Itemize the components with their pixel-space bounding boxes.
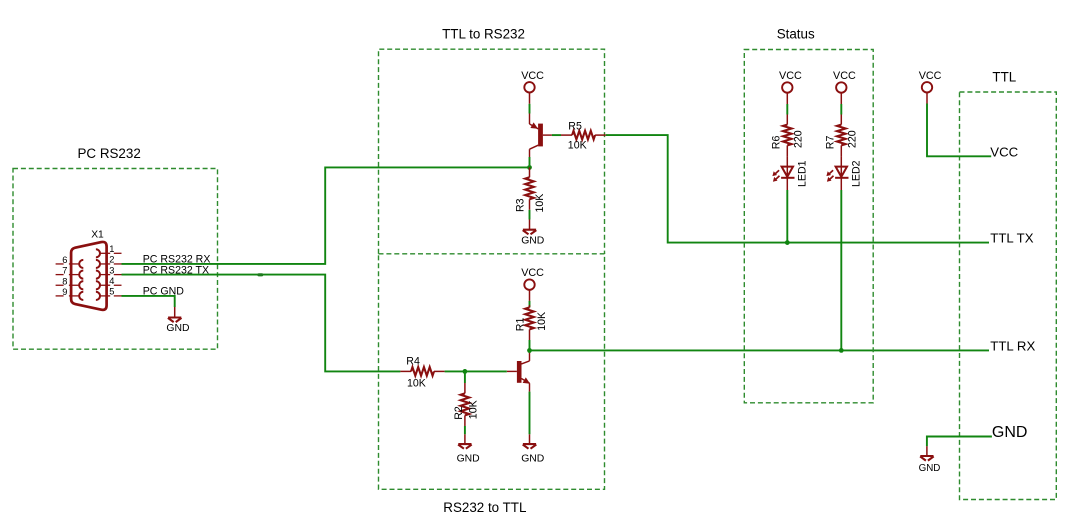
resistor R7	[840, 115, 842, 125]
svg-text:GND: GND	[521, 453, 544, 464]
svg-text:VCC: VCC	[990, 145, 1018, 160]
resistor R5	[561, 134, 572, 136]
wire node to Q2 collector	[529, 350, 531, 353]
svg-text:GND: GND	[457, 453, 480, 464]
svg-text:TTL TX: TTL TX	[990, 231, 1033, 246]
svg-text:VCC: VCC	[919, 70, 942, 82]
svg-text:GND: GND	[521, 235, 544, 246]
net TTL TX wire	[606, 135, 989, 243]
svg-text:10K: 10K	[468, 400, 480, 419]
pin 2 lead	[100, 263, 110, 265]
wire VCC to R6	[786, 104, 788, 115]
transistor Q2 (NPN)	[507, 353, 530, 392]
svg-text:VCC: VCC	[521, 267, 544, 279]
svg-text:7: 7	[62, 266, 67, 276]
svg-text:R7: R7	[824, 136, 836, 150]
wire R1 to node	[529, 340, 531, 350]
frame TTL	[960, 92, 1057, 500]
wire VCC to R7	[840, 104, 842, 115]
svg-text:PC RS232: PC RS232	[78, 146, 141, 161]
frame RS232 to TTL	[379, 254, 605, 489]
connector contact pin 9	[79, 292, 83, 300]
resistor R6	[786, 115, 788, 125]
svg-text:6: 6	[62, 255, 67, 265]
net GND wire	[927, 437, 992, 447]
svg-text:PC GND: PC GND	[143, 286, 185, 298]
pin lead from VCC	[529, 93, 531, 104]
svg-text:PC RS232 TX: PC RS232 TX	[143, 264, 209, 276]
svg-text:10K: 10K	[534, 194, 546, 213]
connector contact pin 7	[79, 271, 83, 279]
svg-text:RS232 to TTL: RS232 to TTL	[443, 500, 526, 515]
svg-text:R2: R2	[453, 406, 465, 420]
svg-text:LED2: LED2	[850, 160, 862, 187]
net PC GND wire	[122, 296, 175, 307]
node junction LED2	[839, 348, 844, 353]
svg-text:VCC: VCC	[779, 70, 802, 82]
svg-text:GND: GND	[919, 463, 941, 474]
ground symbol below X1	[168, 318, 182, 323]
svg-text:R3: R3	[514, 198, 526, 212]
LED LED1	[772, 156, 794, 190]
pin 4 lead	[100, 284, 110, 286]
svg-text:8: 8	[62, 276, 67, 286]
connector contact pin 6	[79, 260, 83, 268]
wire LED2 to net	[840, 190, 842, 350]
svg-text:TTL: TTL	[992, 70, 1016, 85]
connector X1 body	[71, 242, 107, 310]
pin lead to ground	[529, 434, 531, 444]
svg-text:R5: R5	[568, 120, 582, 132]
ground symbol below R2	[458, 444, 472, 449]
pin 3 lead	[100, 274, 110, 276]
svg-text:10K: 10K	[568, 139, 587, 151]
ground symbol below Q2	[523, 444, 537, 449]
pin 7 lead	[69, 274, 79, 276]
svg-text:10K: 10K	[407, 377, 426, 389]
svg-text:R1: R1	[514, 318, 526, 332]
svg-text:3: 3	[109, 265, 114, 275]
svg-text:Status: Status	[777, 26, 815, 41]
LED LED2	[826, 156, 848, 190]
pin lead from VCC	[529, 290, 531, 301]
node junction LED1	[785, 240, 790, 245]
pin 5 lead	[100, 295, 110, 297]
resistor R2	[464, 383, 466, 393]
connector contact pin 4	[96, 281, 100, 289]
pin 9 lead	[69, 295, 79, 297]
svg-text:2: 2	[109, 255, 114, 265]
wire Q2 emitter to ground	[529, 392, 531, 435]
pin 8 lead	[69, 284, 79, 286]
wire Q1 collector to node	[529, 157, 531, 165]
svg-text:10K: 10K	[536, 312, 548, 331]
svg-text:GND: GND	[166, 323, 189, 334]
resistor R3	[529, 167, 531, 177]
wire LED1 to net	[786, 190, 788, 243]
svg-text:VCC: VCC	[521, 70, 544, 82]
svg-text:220: 220	[792, 130, 804, 148]
pin lead from VCC	[926, 93, 928, 104]
ground symbol below R3	[523, 230, 537, 235]
wire node down to R2	[464, 371, 466, 383]
pin lead to ground	[529, 220, 531, 230]
wire R2 to ground	[464, 426, 466, 434]
wire R3 to ground	[529, 210, 531, 220]
wire VCC to Q1 emitter	[529, 104, 531, 114]
svg-text:5: 5	[109, 287, 114, 297]
svg-text:TTL RX: TTL RX	[990, 339, 1035, 354]
wire VCC to R1	[529, 301, 531, 308]
wire Q1 base to R5	[552, 134, 561, 136]
net PC RS232 RX wire	[122, 167, 530, 264]
frame PC RS232	[13, 169, 218, 350]
node junction R4 / R2 / Q2 base	[463, 369, 468, 374]
pin lead to ground	[464, 434, 466, 444]
net PC RS232 TX wire	[122, 275, 401, 372]
transistor Q1 (PNP)	[530, 114, 552, 158]
frame TTL to RS232	[379, 49, 605, 254]
svg-text:X1: X1	[91, 229, 104, 240]
svg-text:220: 220	[846, 130, 858, 148]
junction stub on TX net	[257, 273, 263, 276]
pin 1 lead	[100, 252, 110, 254]
svg-text:LED1: LED1	[796, 160, 808, 187]
connector contact pin 8	[79, 281, 83, 289]
pin lead from VCC	[786, 93, 788, 104]
wire node to Q2 base	[465, 370, 507, 372]
svg-text:R6: R6	[770, 136, 782, 150]
pin lead to ground	[926, 446, 928, 456]
ground symbol bottom right	[920, 456, 934, 461]
node junction R1 / Q2 collector / TTL RX	[527, 348, 532, 353]
pin lead to ground	[174, 307, 176, 317]
connector contact pin 3	[96, 271, 100, 279]
net VCC wire	[927, 104, 991, 157]
svg-text:4: 4	[109, 276, 114, 286]
pin 6 lead	[69, 263, 79, 265]
svg-text:VCC: VCC	[833, 70, 856, 82]
node junction Q1 collector / R3	[527, 165, 532, 170]
net TTL RX wire	[530, 349, 990, 351]
connector contact pin 5	[96, 292, 100, 300]
resistor R1	[529, 305, 531, 307]
frame Status	[744, 50, 873, 403]
resistor R4	[400, 370, 411, 372]
wire R4 to node	[445, 370, 465, 372]
svg-text:1: 1	[109, 244, 114, 254]
pin lead from VCC	[840, 93, 842, 104]
svg-text:TTL to RS232: TTL to RS232	[442, 27, 525, 42]
svg-text:R4: R4	[406, 356, 420, 368]
svg-text:GND: GND	[992, 424, 1028, 441]
connector contact pin 2	[96, 260, 100, 268]
connector contact pin 1	[96, 249, 100, 257]
svg-text:9: 9	[62, 287, 67, 297]
